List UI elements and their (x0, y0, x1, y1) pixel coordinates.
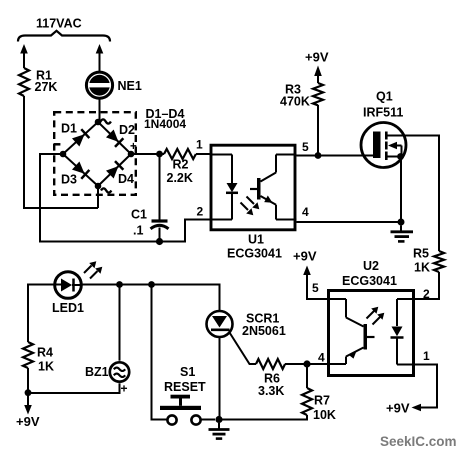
buzzer BZ1 (110, 362, 129, 381)
svg-text:+9V: +9V (305, 50, 329, 65)
wire: NE1 to bridge top node (99, 99, 101, 123)
ground (SCR node) (218, 423, 220, 429)
node ~ top (101, 119, 111, 123)
junction: plus rail / C1 tap (156, 151, 163, 158)
junction: R4 / BZ1 rail (25, 389, 32, 396)
svg-text:R7: R7 (314, 394, 330, 408)
wire: Q1 drain to R5 (388, 136, 440, 252)
svg-text:27K: 27K (35, 80, 58, 94)
wire: right AC lead with up arrow (99, 52, 101, 72)
wire: ground node to R7 bottom (219, 415, 307, 420)
junction: bridge left (60, 151, 67, 158)
optocoupler U2 box (329, 291, 414, 376)
junction: pin5 / R3 (315, 152, 322, 159)
svg-text:+9V: +9V (16, 414, 40, 429)
wire: S1 tap down to switch (152, 285, 168, 420)
wire: LED1 to SCR1 rail (81, 285, 220, 312)
dashed enclosure for bridge (54, 112, 136, 195)
wire: rail to BZ1 (119, 285, 121, 361)
svg-text:1N4004: 1N4004 (144, 117, 186, 131)
neon lamp NE1 (89, 75, 110, 96)
svg-text:1: 1 (196, 138, 203, 152)
wire: bridge plus output to R2 (131, 153, 164, 155)
phototransistor of U2 (327, 299, 364, 327)
svg-text:.1: .1 (133, 224, 143, 238)
transistor Q1 (361, 123, 406, 168)
svg-text:R4: R4 (37, 346, 53, 360)
svg-text:1K: 1K (38, 360, 54, 374)
svg-text:S1: S1 (180, 365, 195, 379)
svg-text:+9V: +9V (293, 249, 317, 264)
wire: S1 right to ground node (201, 419, 215, 421)
svg-text:D2: D2 (119, 123, 135, 137)
svg-text:117VAC: 117VAC (36, 17, 82, 31)
junction: S1 tap (148, 281, 155, 288)
wire: R3 lower lead (317, 105, 319, 156)
resistor R2 (164, 149, 196, 159)
power +9V (U2 pin 5) (307, 274, 327, 299)
LED of U2 (397, 299, 415, 326)
junction: BZ1 tap (116, 281, 123, 288)
wire: R5 to U2 pin 2 (415, 272, 439, 299)
svg-text:U1: U1 (248, 233, 264, 247)
capacitor C1 lead (159, 154, 161, 220)
wire: Q1 source down (400, 157, 402, 223)
svg-text:3.3K: 3.3K (258, 384, 284, 398)
svg-text:BZ1: BZ1 (85, 365, 109, 379)
svg-text:C1: C1 (131, 208, 147, 222)
wire: SCR1 cathode down (219, 337, 221, 420)
svg-text:1K: 1K (414, 261, 430, 275)
power +9V (R3) (317, 75, 319, 83)
resistor R7 (302, 388, 312, 415)
LED of U1 (210, 155, 233, 184)
node ~ bottom (101, 188, 111, 192)
svg-text:D3: D3 (61, 173, 77, 187)
wire: left AC lead with up arrow (23, 52, 25, 68)
svg-text:+9V: +9V (386, 401, 410, 416)
light arrows of U2 (367, 311, 375, 319)
junction: SCR cathode / S1 / ground (215, 416, 222, 423)
ground (Q1 source) (400, 226, 402, 232)
svg-text:+: + (121, 382, 128, 396)
wire: U1 pin 5 to Q1 gate (297, 155, 374, 157)
diode D4 (106, 161, 124, 179)
capacitor C1 (152, 219, 168, 222)
svg-text:U2: U2 (363, 259, 379, 273)
svg-text:2N5061: 2N5061 (242, 324, 286, 338)
svg-text:R5: R5 (413, 247, 429, 261)
power +9V (R4, down arrow) (24, 405, 32, 415)
junction: bridge top (95, 119, 102, 126)
light arrows of LED1 (84, 266, 92, 274)
wire: junction down to R7 (306, 364, 308, 388)
optocoupler U1 box (211, 145, 295, 230)
diode D1 (72, 129, 90, 147)
svg-text:LED1: LED1 (52, 301, 84, 315)
svg-text:IRF511: IRF511 (363, 106, 403, 120)
svg-text:4: 4 (318, 351, 325, 365)
wire: R6 to U2 pin 4 (285, 363, 327, 365)
junction: bridge bottom (95, 183, 102, 190)
svg-text:5: 5 (302, 140, 309, 154)
phototransistor of U1 (257, 178, 261, 200)
svg-text:2: 2 (197, 205, 204, 219)
wire: BZ1 bottom to R4 rail (28, 383, 120, 393)
wire: bridge bottom stub (97, 186, 99, 208)
junction: source node (398, 219, 405, 226)
junction: bridge right (128, 151, 135, 158)
diode D2 (106, 129, 124, 147)
svg-text:D4: D4 (118, 172, 134, 186)
resistor R1 (19, 68, 29, 96)
svg-text:ECG3041: ECG3041 (342, 274, 397, 288)
svg-text:2: 2 (423, 287, 430, 301)
junction: C1 to minus rail (156, 238, 163, 245)
wire: R2 to U1 pin 1 (196, 153, 210, 155)
diode D3 (72, 161, 90, 179)
svg-text:10K: 10K (313, 408, 336, 422)
svg-text:SeekIC.com: SeekIC.com (380, 434, 457, 449)
wire: U1 pin 4 to Q1 source (297, 221, 402, 223)
svg-text:470K: 470K (280, 95, 310, 109)
svg-text:RESET: RESET (164, 380, 206, 394)
resistor R5 (434, 251, 444, 272)
resistor R6 (256, 359, 285, 369)
resistor R4 (23, 342, 33, 368)
svg-text:ECG3041: ECG3041 (227, 247, 282, 261)
wire: U2 pin 1 to +9V (415, 365, 437, 408)
light arrows of U1 (247, 197, 255, 205)
wire: LED1 left to R4 (28, 285, 55, 343)
svg-text:Q1: Q1 (376, 90, 393, 104)
wire: R1 to bridge bottom node (24, 96, 98, 208)
svg-text:NE1: NE1 (118, 79, 142, 93)
svg-text:D1: D1 (61, 122, 77, 136)
SCR SCR1 (207, 311, 233, 337)
svg-text:1: 1 (423, 349, 430, 363)
brace for 117VAC source (18, 31, 110, 42)
wire: R4 to +9V (27, 368, 29, 406)
svg-text:2.2K: 2.2K (167, 171, 193, 185)
wire: bridge minus output to U1 pin 2 (40, 154, 210, 242)
switch S1 (171, 395, 191, 399)
wire: bridge diamond arms (63, 122, 131, 186)
junction: R6/R7/pin4 (303, 360, 310, 367)
resistor R3 (313, 83, 323, 105)
node minus (54, 143, 61, 146)
svg-text:4: 4 (302, 205, 309, 219)
LED LED1 (55, 272, 82, 299)
svg-text:R2: R2 (173, 158, 189, 172)
svg-text:5: 5 (312, 281, 319, 295)
